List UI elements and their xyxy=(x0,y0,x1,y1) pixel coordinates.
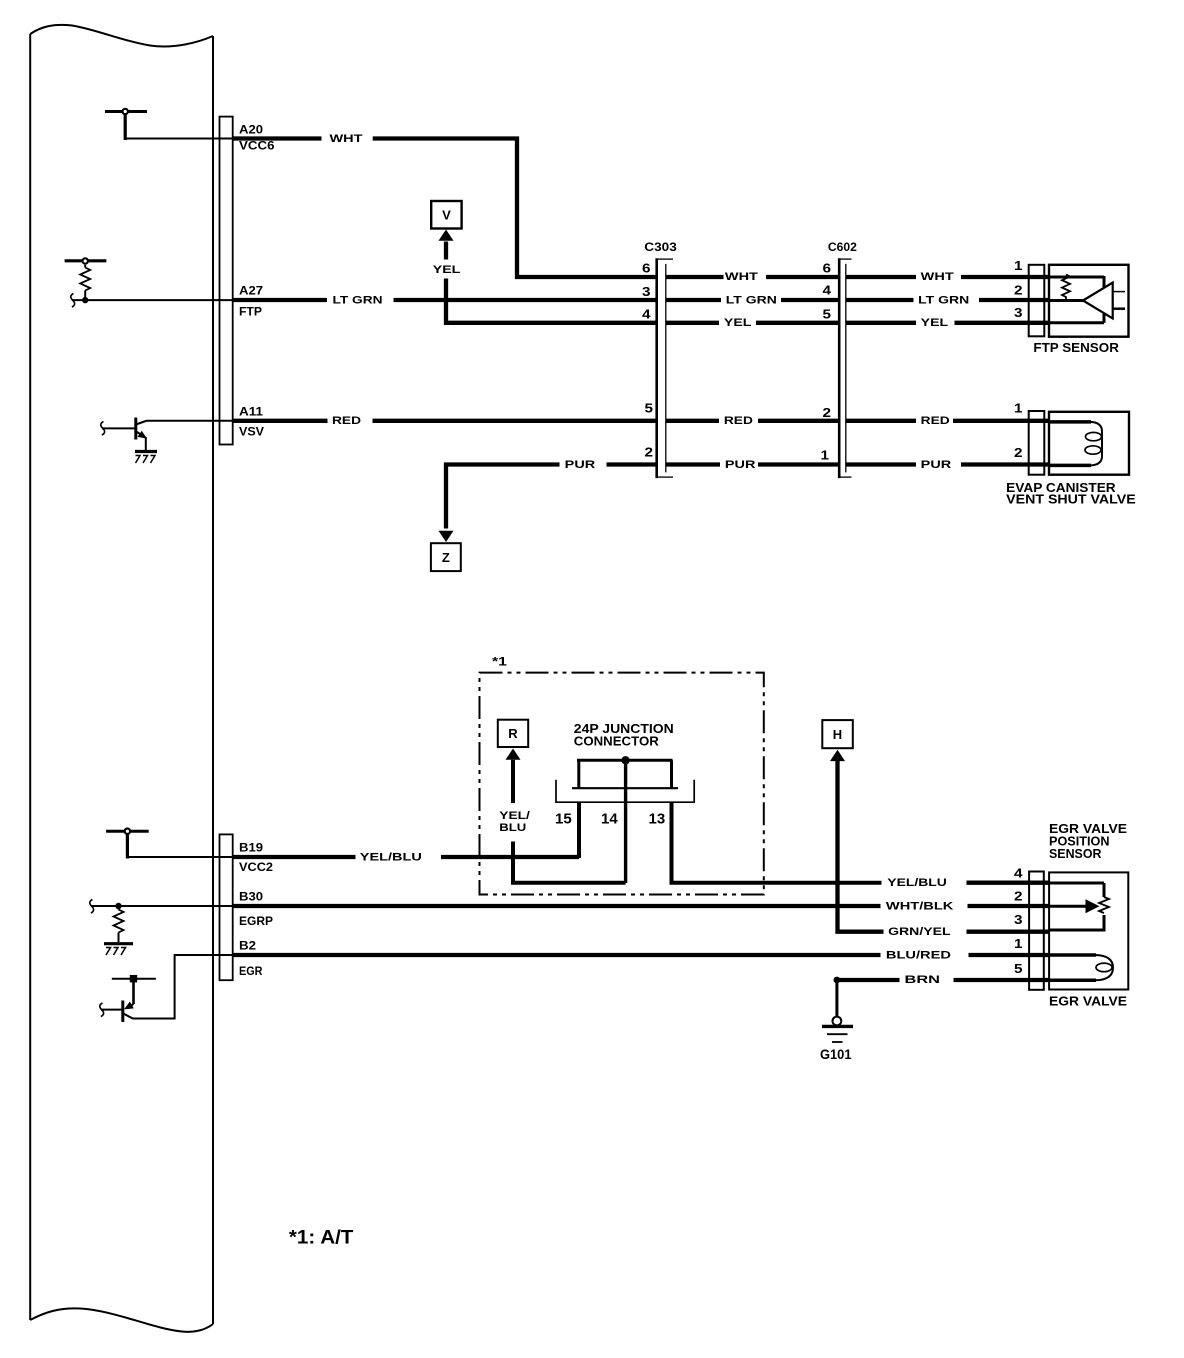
svg-text:6: 6 xyxy=(642,260,651,275)
svg-text:RED: RED xyxy=(332,415,361,427)
svg-text:1: 1 xyxy=(821,448,830,463)
svg-text:LT GRN: LT GRN xyxy=(726,295,777,307)
svg-text:VCC6: VCC6 xyxy=(239,139,275,153)
svg-text:R: R xyxy=(508,726,518,741)
svg-text:VSV: VSV xyxy=(239,425,264,439)
svg-text:LT GRN: LT GRN xyxy=(918,295,969,307)
svg-text:4: 4 xyxy=(642,307,651,322)
svg-text:BRN: BRN xyxy=(905,974,941,986)
svg-text:EGR: EGR xyxy=(239,964,263,978)
svg-text:WHT: WHT xyxy=(725,271,758,283)
svg-text:H: H xyxy=(833,727,842,742)
svg-text:14: 14 xyxy=(601,811,618,828)
svg-text:WHT: WHT xyxy=(921,271,954,283)
svg-text:YEL: YEL xyxy=(724,317,752,329)
svg-text:FTP SENSOR: FTP SENSOR xyxy=(1033,341,1119,355)
svg-text:5: 5 xyxy=(823,307,832,322)
svg-text:YEL: YEL xyxy=(921,317,949,329)
svg-text:BLU: BLU xyxy=(499,822,526,834)
svg-text:1: 1 xyxy=(1014,258,1023,273)
svg-text:A20: A20 xyxy=(239,123,263,137)
svg-text:GRN/YEL: GRN/YEL xyxy=(888,926,951,938)
svg-text:2: 2 xyxy=(823,405,832,420)
svg-text:WHT/BLK: WHT/BLK xyxy=(886,900,954,912)
svg-text:A27: A27 xyxy=(239,284,263,298)
svg-text:FTP: FTP xyxy=(239,305,262,319)
svg-text:PUR: PUR xyxy=(725,459,756,471)
svg-text:B19: B19 xyxy=(239,841,263,855)
svg-text:*1: *1 xyxy=(492,655,507,669)
svg-text:3: 3 xyxy=(1014,305,1023,320)
svg-text:3: 3 xyxy=(642,284,651,299)
svg-text:YEL/BLU: YEL/BLU xyxy=(360,852,422,864)
svg-text:1: 1 xyxy=(1014,936,1023,951)
svg-text:2: 2 xyxy=(645,445,654,460)
svg-text:2: 2 xyxy=(1014,889,1023,904)
svg-text:1: 1 xyxy=(1014,401,1023,416)
svg-text:3: 3 xyxy=(1014,912,1023,927)
svg-text:EGRP: EGRP xyxy=(239,914,273,928)
svg-text:YEL: YEL xyxy=(433,264,461,276)
svg-text:C602: C602 xyxy=(828,240,857,254)
svg-text:VCC2: VCC2 xyxy=(239,860,273,874)
svg-text:A11: A11 xyxy=(239,405,263,419)
svg-text:WHT: WHT xyxy=(330,133,363,145)
svg-text:RED: RED xyxy=(921,415,950,427)
svg-text:Z: Z xyxy=(442,550,450,565)
svg-text:YEL/BLU: YEL/BLU xyxy=(887,877,947,889)
svg-text:B30: B30 xyxy=(239,890,263,904)
svg-text:PUR: PUR xyxy=(921,459,952,471)
svg-text:2: 2 xyxy=(1014,445,1023,460)
svg-text:4: 4 xyxy=(823,283,832,298)
svg-text:6: 6 xyxy=(823,260,832,275)
svg-text:4: 4 xyxy=(1014,865,1023,880)
svg-text:G101: G101 xyxy=(820,1046,852,1062)
svg-text:BLU/RED: BLU/RED xyxy=(886,949,951,961)
svg-text:EGR VALVE: EGR VALVE xyxy=(1049,995,1127,1009)
svg-text:CONNECTOR: CONNECTOR xyxy=(574,735,659,749)
svg-text:PUR: PUR xyxy=(565,459,596,471)
svg-text:LT GRN: LT GRN xyxy=(333,295,383,307)
svg-text:YEL/: YEL/ xyxy=(499,810,530,822)
svg-text:B2: B2 xyxy=(239,939,256,953)
svg-text:13: 13 xyxy=(649,811,666,828)
svg-text:V: V xyxy=(442,208,451,223)
svg-text:*1: A/T: *1: A/T xyxy=(289,1228,354,1249)
svg-text:VENT SHUT VALVE: VENT SHUT VALVE xyxy=(1006,492,1135,506)
svg-text:2: 2 xyxy=(1014,282,1023,297)
svg-text:RED: RED xyxy=(724,415,753,427)
svg-text:15: 15 xyxy=(555,811,572,828)
svg-text:C303: C303 xyxy=(644,240,677,254)
svg-text:5: 5 xyxy=(1014,961,1023,976)
svg-text:SENSOR: SENSOR xyxy=(1049,847,1102,861)
svg-text:5: 5 xyxy=(645,401,654,416)
